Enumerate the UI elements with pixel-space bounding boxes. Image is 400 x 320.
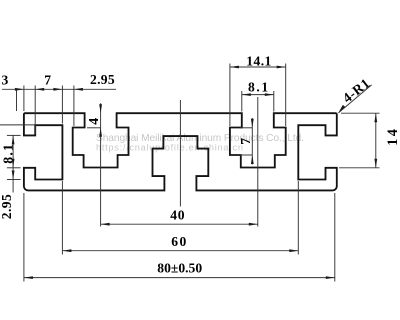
dimension 8.1 top (242, 94, 274, 96)
svg-text:40: 40 (170, 207, 185, 222)
svg-text:14.1: 14.1 (246, 54, 271, 69)
center line slot 1 (100, 103, 102, 226)
center line middle slot (179, 100, 181, 207)
svg-text:4: 4 (86, 118, 101, 125)
svg-text:2.95: 2.95 (90, 72, 115, 87)
dimension 14 right (375, 113, 377, 168)
svg-text:7: 7 (44, 73, 51, 88)
svg-text:https://cnaluprofile.en.china.: https://cnaluprofile.en.china.cn (96, 142, 243, 152)
svg-text:8.1: 8.1 (1, 143, 16, 164)
svg-text:14: 14 (385, 127, 400, 146)
extension lines left dims (0, 125, 35, 193)
svg-text:4-R1: 4-R1 (340, 75, 373, 105)
dimension chain 3 / 7 / 2.95 top-left (2, 88, 116, 90)
dimension 40 (101, 223, 258, 225)
aluminum profile cross-section outline (24, 113, 337, 190)
dimension 7 slot2 cavity depth (251, 118, 253, 165)
extension lines bottom dims (24, 181, 335, 282)
extension lines top-left (17, 86, 74, 135)
center line slot 2 (257, 97, 259, 227)
svg-text:8.1: 8.1 (248, 79, 270, 94)
svg-text:3: 3 (2, 73, 9, 88)
dimension 4 slot1 neck depth (99, 104, 102, 113)
extension lines right 14 dim (339, 113, 380, 168)
svg-text:60: 60 (171, 234, 187, 249)
dimension 60 (62, 250, 298, 252)
extension lines slot 2 (230, 64, 286, 127)
dimension 14.1 (230, 66, 286, 68)
dimension 2.95 left side (12, 171, 15, 180)
dimension 8.1 left side (12, 135, 15, 144)
svg-text:7: 7 (238, 138, 253, 145)
leader 4-R1 (338, 85, 371, 113)
dimension 80±0.50 (24, 277, 335, 279)
svg-text:2.95: 2.95 (0, 194, 14, 219)
svg-text:80±0.50: 80±0.50 (157, 261, 202, 276)
